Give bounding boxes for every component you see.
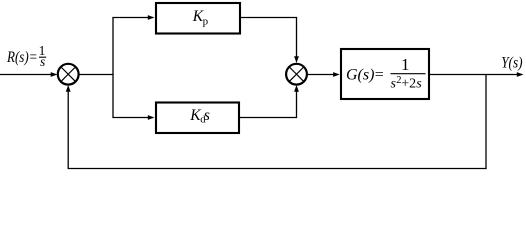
wire: Kp output to summing junction S2 <box>241 18 297 58</box>
wire: input R(s) to summing junction S1 <box>0 74 52 76</box>
svg-text:Y(s): Y(s) <box>501 54 522 71</box>
arrowhead output Y(s) <box>517 72 524 77</box>
svg-text:p: p <box>203 15 209 27</box>
svg-text:s: s <box>40 54 45 69</box>
svg-text:R(s)=: R(s)= <box>6 49 37 66</box>
block G(s) = 1/(s^2+2s) <box>341 49 429 99</box>
arrowhead up into S1 <box>66 85 71 92</box>
arrowhead into Kd <box>148 115 155 120</box>
wire: feedback left vertical up to S1 <box>67 91 69 169</box>
svg-text:s: s <box>416 77 422 92</box>
arrowhead into G <box>333 72 340 77</box>
arrowhead into Kp <box>148 15 155 20</box>
node: branch point vertical wire <box>112 18 114 118</box>
summing junction S1 <box>58 64 79 85</box>
svg-text:G(s): G(s) <box>346 67 374 84</box>
wire: S1 to branch node <box>79 74 114 76</box>
block Kp <box>156 3 240 34</box>
svg-text:+2: +2 <box>401 77 416 92</box>
wire: feedback bottom horizontal <box>68 168 486 170</box>
summing junction S2 <box>286 64 307 85</box>
label R(s)=1/s <box>6 43 46 69</box>
wire: feedback takeoff vertical (right) <box>485 75 487 170</box>
wire: branch to block Kp <box>112 17 149 19</box>
svg-text:=: = <box>375 67 384 84</box>
wire: branch to block Kd <box>112 117 149 119</box>
svg-text:1: 1 <box>401 55 410 74</box>
wire: Kd output to summing junction S2 <box>239 91 297 118</box>
arrowhead up into S2 <box>294 85 299 92</box>
wire: S2 to block G <box>307 74 334 76</box>
block Kd s <box>156 103 239 134</box>
wire: G output to Y(s) <box>430 74 518 76</box>
arrowhead into S1 <box>51 72 58 77</box>
svg-text:s: s <box>204 107 210 124</box>
arrowhead down into S2 <box>294 56 299 63</box>
